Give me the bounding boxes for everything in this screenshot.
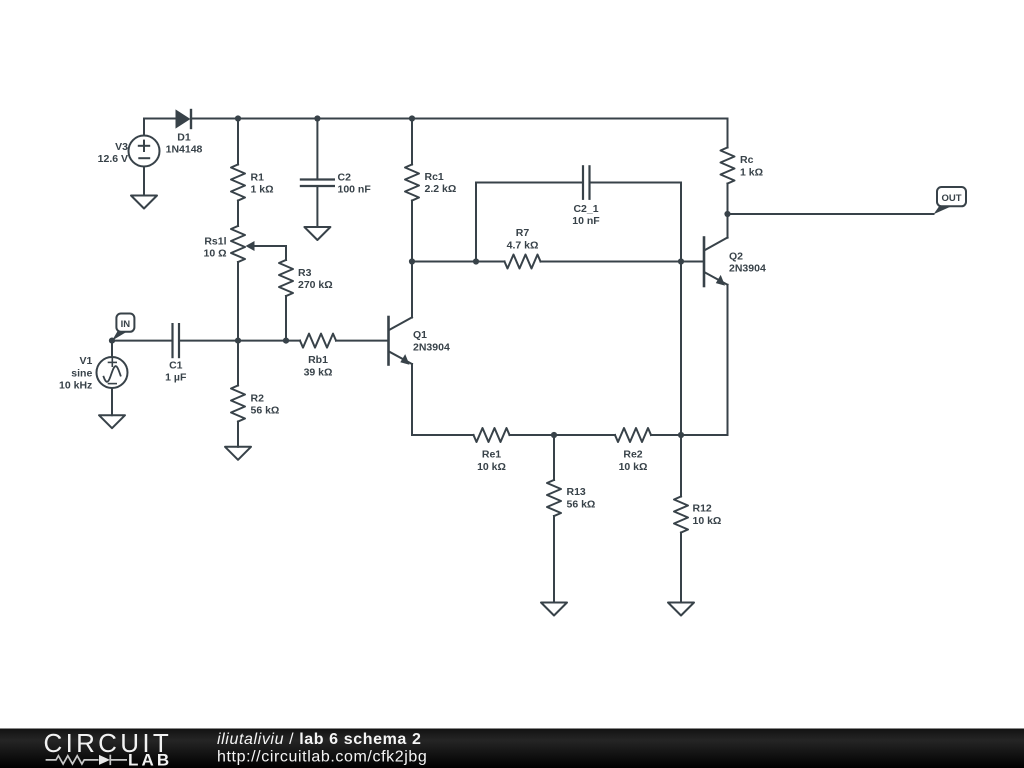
- wire C2_1 right leg: [680, 183, 682, 262]
- wire Q2 collector up: [727, 214, 729, 238]
- svg-text:C1: C1: [169, 360, 183, 372]
- wire Rb1 to Q1 base: [336, 340, 388, 342]
- ground (C2): [304, 227, 330, 240]
- wire Q2 emitter down: [727, 285, 729, 435]
- svg-text:C2: C2: [338, 172, 352, 184]
- wire R3 bottom to input row: [285, 296, 287, 341]
- resistor Re2 10 k: [615, 428, 651, 473]
- svg-text:2N3904: 2N3904: [729, 262, 766, 274]
- svg-text:R13: R13: [567, 486, 586, 498]
- wire base row left of R7: [412, 261, 505, 263]
- svg-text:2.2 kΩ: 2.2 kΩ: [425, 183, 457, 195]
- resistor Rb1 39 k: [300, 334, 336, 379]
- svg-text:Q2: Q2: [729, 250, 743, 262]
- svg-text:56 kΩ: 56 kΩ: [567, 498, 596, 510]
- svg-text:1 µF: 1 µF: [165, 372, 187, 384]
- wire pot wiper down to R3: [285, 246, 287, 260]
- svg-text:http://circuitlab.com/cfk2jbg: http://circuitlab.com/cfk2jbg: [217, 749, 427, 766]
- node: R12 junction: [678, 432, 684, 438]
- capacitor C2 100 nF: [301, 119, 371, 228]
- svg-text:Q1: Q1: [413, 329, 427, 341]
- svg-text:Rs1l: Rs1l: [204, 236, 226, 248]
- node: R1 top junction: [235, 115, 241, 121]
- svg-text:1N4148: 1N4148: [166, 144, 203, 156]
- ground (V1): [99, 415, 125, 428]
- voltage source V3 12.6 V: [98, 119, 160, 196]
- svg-text:iliutaliviu / lab 6 schema 2: iliutaliviu / lab 6 schema 2: [217, 731, 421, 748]
- svg-text:Rb1: Rb1: [308, 354, 328, 366]
- port flag OUT: [934, 187, 967, 214]
- resistor Re1 10 k: [474, 428, 510, 473]
- node: R13 junction: [551, 432, 557, 438]
- wire Q1 emitter down: [411, 364, 413, 435]
- wire emitter row left: [412, 434, 474, 436]
- transistor Q1 2N3904: [389, 317, 450, 365]
- logo resistor-diode line: [46, 755, 127, 765]
- svg-text:R3: R3: [298, 267, 312, 279]
- node: C2_1 right / Q2 base junction: [678, 258, 684, 264]
- node: Rc / collector / OUT junction: [724, 211, 730, 217]
- transistor Q2 2N3904: [704, 238, 766, 287]
- svg-text:56 kΩ: 56 kΩ: [251, 405, 280, 417]
- banner background: [0, 729, 1024, 768]
- svg-text:R2: R2: [251, 393, 265, 405]
- svg-text:R12: R12: [693, 503, 712, 515]
- svg-text:10 kHz: 10 kHz: [59, 380, 92, 392]
- svg-text:Re1: Re1: [482, 449, 501, 461]
- svg-text:C2_1: C2_1: [573, 203, 598, 215]
- port flag IN: [112, 314, 134, 341]
- svg-text:R1: R1: [251, 172, 265, 184]
- wire R1 bottom to pot: [237, 201, 239, 227]
- wire C1 to Rb1: [180, 340, 300, 342]
- wire to OUT: [728, 213, 934, 215]
- ground (R12): [668, 603, 694, 616]
- svg-text:D1: D1: [177, 132, 191, 144]
- ground (R2): [225, 447, 251, 460]
- node: IN junction: [109, 338, 115, 344]
- wire Q1 collector up: [411, 262, 413, 318]
- resistor R7 4.7 k: [505, 227, 541, 268]
- svg-text:12.6 V: 12.6 V: [98, 153, 128, 165]
- diode D1: [166, 110, 203, 156]
- node: Rc1 / Q1 collector / R7 junction: [409, 258, 415, 264]
- wire base junction down to Re2/R12 junction: [680, 262, 682, 436]
- node: Rc1 top junction: [409, 115, 415, 121]
- svg-text:10 kΩ: 10 kΩ: [477, 461, 506, 473]
- node: C2 top junction: [314, 115, 320, 121]
- resistor R2 56 k: [231, 341, 279, 447]
- svg-text:Rc: Rc: [740, 154, 754, 166]
- svg-text:100 nF: 100 nF: [338, 184, 372, 196]
- svg-text:10 nF: 10 nF: [572, 215, 600, 227]
- svg-text:IN: IN: [121, 319, 131, 330]
- svg-text:OUT: OUT: [941, 193, 961, 204]
- svg-text:2N3904: 2N3904: [413, 342, 450, 354]
- svg-text:270 kΩ: 270 kΩ: [298, 279, 333, 291]
- svg-text:R7: R7: [516, 227, 530, 239]
- svg-text:V1: V1: [79, 355, 92, 367]
- wire base row right of R7 to Q2 base: [541, 261, 704, 263]
- capacitor C2_1 10 nF: [572, 166, 600, 227]
- svg-text:39 kΩ: 39 kΩ: [304, 366, 333, 378]
- svg-text:Re2: Re2: [623, 449, 642, 461]
- potentiometer Rs1l 10 Ohm: [203, 226, 286, 262]
- capacitor C1 1 uF: [165, 324, 187, 384]
- wire top rail right segment: [191, 118, 728, 120]
- node: C2_1 left junction: [473, 258, 479, 264]
- svg-text:sine: sine: [71, 367, 92, 379]
- voltage source V1 sine: [59, 341, 127, 416]
- wire Re2 to Q2 emitter column: [651, 434, 728, 436]
- wire C2_1 top right: [590, 182, 682, 184]
- resistor R3 270 k: [279, 260, 333, 296]
- node: R2 top junction: [235, 338, 241, 344]
- wire top rail left segment: [144, 118, 177, 120]
- svg-text:10 kΩ: 10 kΩ: [693, 515, 722, 527]
- svg-text:4.7 kΩ: 4.7 kΩ: [507, 240, 539, 252]
- wire C2_1 top left: [476, 182, 583, 184]
- resistor Rc 1 k: [721, 119, 764, 215]
- svg-text:LAB: LAB: [128, 750, 172, 768]
- svg-text:10 Ω: 10 Ω: [203, 248, 226, 260]
- ground (R13): [541, 603, 567, 616]
- wire IN node to C1: [112, 340, 172, 342]
- svg-text:1 kΩ: 1 kΩ: [251, 184, 274, 196]
- svg-text:V3: V3: [115, 141, 128, 153]
- wire Re1 to Re2: [510, 434, 616, 436]
- wire C2_1 left leg: [475, 183, 477, 262]
- svg-text:1 kΩ: 1 kΩ: [740, 167, 763, 179]
- resistor R13 56 k: [547, 435, 595, 603]
- svg-text:10 kΩ: 10 kΩ: [619, 461, 648, 473]
- ground (V3): [131, 196, 157, 209]
- resistor R12 10 k: [674, 435, 721, 603]
- wire pot bottom to node: [237, 262, 239, 341]
- node: R3 bottom junction: [283, 338, 289, 344]
- svg-text:Rc1: Rc1: [425, 171, 444, 183]
- resistor Rc1 2.2 k: [405, 119, 456, 262]
- resistor R1 1 k: [231, 119, 274, 201]
